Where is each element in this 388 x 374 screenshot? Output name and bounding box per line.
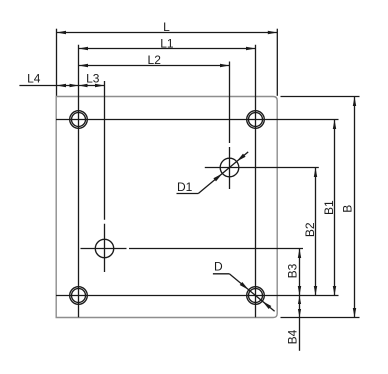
- svg-text:L2: L2: [148, 53, 162, 67]
- hole top-left (counterbored): [70, 111, 88, 129]
- svg-text:L4: L4: [27, 71, 41, 85]
- extension line: plate left edge up: [56, 29, 58, 96]
- leader D1: [177, 152, 249, 194]
- dimension B4: [285, 296, 301, 351]
- hole bottom-right D (counterbored): [247, 287, 265, 305]
- dimension L4: [19, 71, 104, 87]
- centerline: left hole column: [78, 45, 80, 317]
- svg-text:L3: L3: [86, 71, 100, 85]
- dimension B: [340, 97, 356, 318]
- svg-text:B4: B4: [285, 329, 299, 344]
- svg-text:D1: D1: [177, 180, 193, 194]
- dimension L2: [79, 53, 230, 67]
- svg-text:B: B: [340, 205, 354, 213]
- dimension L1: [79, 36, 256, 50]
- centerline: D1 hole column: [229, 62, 231, 190]
- centerline: top hole row: [56, 119, 339, 121]
- svg-text:D: D: [214, 259, 223, 273]
- hole bottom-left (counterbored): [70, 287, 88, 305]
- centerline: mid hole column: [104, 81, 106, 272]
- hole mid-left: [95, 239, 113, 257]
- svg-text:B2: B2: [303, 222, 317, 237]
- svg-text:L1: L1: [160, 36, 174, 50]
- dimension B2: [303, 168, 317, 296]
- dimension B1: [322, 120, 336, 296]
- dimension L: [57, 20, 278, 34]
- centerline: right hole column: [255, 45, 257, 317]
- hole D1: [220, 158, 239, 177]
- dimension B3: [286, 249, 302, 296]
- extension line: plate top edge right: [281, 96, 360, 98]
- centerline: D1 hole row: [205, 167, 319, 169]
- extension line: plate bottom edge right: [281, 317, 360, 319]
- plate outline: [56, 97, 277, 318]
- extension line: plate right edge up: [276, 29, 278, 96]
- svg-text:B3: B3: [286, 263, 300, 278]
- leader D: [213, 259, 275, 311]
- hole top-right (counterbored): [247, 111, 265, 129]
- svg-text:L: L: [163, 20, 170, 34]
- centerline: mid hole row: [81, 248, 304, 250]
- centerline: bottom hole row: [56, 295, 339, 297]
- svg-text:B1: B1: [322, 200, 336, 215]
- dimension L3: [79, 71, 105, 87]
